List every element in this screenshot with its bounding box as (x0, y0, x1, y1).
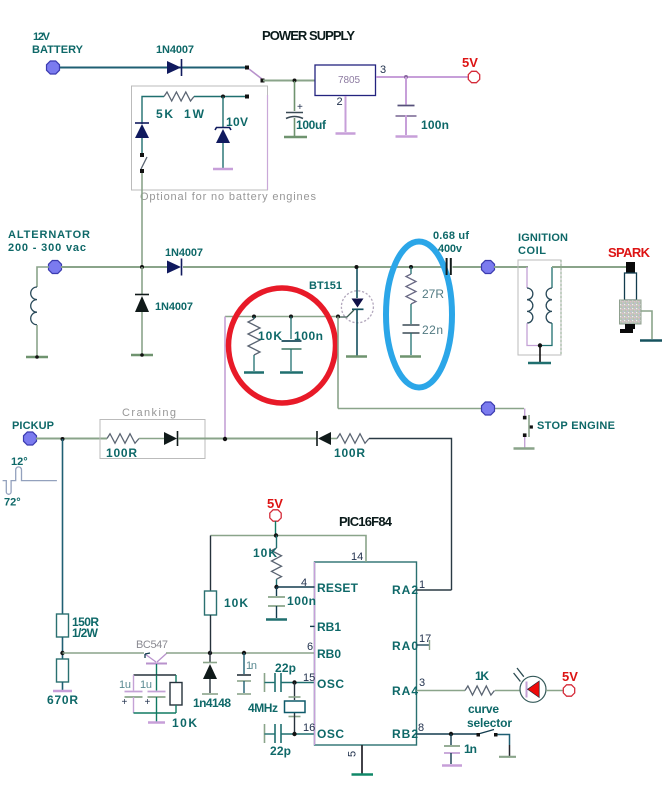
svg-text:22n: 22n (422, 323, 443, 337)
crystal X1 4MHz (294, 683, 296, 701)
svg-text:12°: 12° (11, 456, 28, 468)
wire optional to alternator line (141, 173, 143, 267)
switch SW2 optional (140, 153, 144, 157)
LED D9 (520, 676, 546, 702)
wire pickup line (36, 438, 107, 440)
box optional circuit (132, 86, 268, 190)
svg-text:SPARK: SPARK (608, 245, 651, 260)
svg-text:1n: 1n (464, 742, 477, 756)
svg-text:RB0: RB0 (317, 647, 341, 661)
wire coil output to spark plug (552, 266, 627, 268)
spark plug electrode (625, 324, 635, 329)
svg-text:27R: 27R (422, 287, 444, 301)
svg-text:ALTERNATOR: ALTERNATOR (8, 229, 90, 241)
ground alternator (26, 356, 48, 358)
capacitor 100uf (294, 81, 296, 111)
svg-text:RB1: RB1 (317, 620, 341, 634)
box cranking (100, 420, 205, 459)
terminal dot battery wire end (245, 66, 249, 70)
svg-text:1N4007: 1N4007 (165, 247, 203, 259)
node pad pickup (24, 432, 37, 445)
svg-text:200 - 300 vac: 200 - 300 vac (8, 242, 86, 254)
svg-text:100uf: 100uf (296, 118, 327, 132)
svg-text:10K: 10K (258, 329, 282, 343)
wire 5K top (142, 97, 164, 125)
ground 7805 pin2 (336, 132, 356, 134)
base network bottom wire (134, 712, 177, 714)
diode D2 optional (135, 122, 149, 124)
wire 7805 pin3 to 5V (376, 76, 468, 78)
highlight blue ellipse (386, 242, 452, 388)
pin 5 ground (361, 745, 363, 774)
wire pad into coil (494, 266, 528, 268)
box ignition coil (518, 260, 561, 355)
ground R3 (244, 371, 264, 373)
capacitor C13 1n (450, 734, 452, 745)
diode D7 reversed (316, 431, 318, 446)
svg-text:Optional for no battery engine: Optional for no battery engines (140, 191, 317, 203)
wire switch to 7805 (263, 80, 315, 82)
svg-text:400v: 400v (438, 243, 463, 255)
wire gate node (225, 316, 338, 318)
junction gate node dots (252, 315, 256, 319)
diode D1 1N4007 battery (167, 61, 181, 74)
wire 150R to junction (62, 637, 64, 659)
svg-text:14: 14 (351, 551, 363, 563)
svg-text:1N4007: 1N4007 (155, 301, 193, 313)
diode D6 cranking (164, 432, 177, 445)
svg-text:2: 2 (337, 96, 343, 108)
svg-text:selector: selector (467, 716, 512, 730)
wire coil to ground (36, 325, 38, 356)
svg-text:OSC: OSC (317, 677, 344, 691)
svg-text:5V: 5V (267, 496, 283, 511)
node pad coil input (482, 261, 495, 274)
wire plug shell to ground (641, 311, 652, 339)
spark plug terminal (626, 262, 635, 273)
wire purple gate to pickup (224, 317, 226, 440)
svg-text:+: + (122, 697, 128, 708)
primary winding (526, 267, 528, 288)
diode D4 1N4007 series (167, 261, 181, 274)
switch SW1 battery (249, 69, 262, 79)
svg-text:12V: 12V (33, 31, 51, 43)
junction coil tap (538, 343, 542, 347)
wire RB2 out (417, 733, 479, 735)
svg-text:1N4007: 1N4007 (156, 44, 194, 56)
wire 1K to LED (495, 690, 520, 692)
wire alternator pad to coil (37, 267, 49, 287)
svg-text:100n: 100n (287, 594, 316, 608)
wire RA2 out (417, 589, 452, 591)
svg-text:1u: 1u (140, 679, 152, 691)
svg-text:4MHz: 4MHz (248, 701, 278, 715)
junction pickup branch (61, 437, 65, 441)
svg-text:BATTERY: BATTERY (32, 44, 84, 56)
capacitor C12 100n reset (276, 587, 278, 596)
node pad alternator (49, 261, 62, 274)
wire resistor to diode (139, 438, 164, 440)
svg-text:10K: 10K (253, 546, 277, 560)
resistor R8 670R (57, 659, 69, 682)
svg-text:22p: 22p (275, 661, 296, 675)
resistor R10 10K pullup (276, 536, 278, 549)
svg-text:100n: 100n (421, 118, 449, 132)
svg-text:+: + (145, 697, 151, 708)
ground snubber (400, 355, 421, 357)
junction reset node (274, 585, 278, 589)
wire tap to ground (539, 346, 541, 363)
svg-text:4: 4 (301, 577, 307, 589)
svg-text:1u: 1u (119, 679, 131, 691)
wire gate node to stop switch (337, 317, 339, 409)
svg-text:10K: 10K (172, 716, 197, 730)
svg-text:5V: 5V (462, 55, 478, 70)
wire RA4 out (417, 690, 466, 692)
resistor R7 150R 1/2W (57, 614, 69, 637)
resistor R9 10K base (175, 675, 177, 683)
svg-text:RA2: RA2 (392, 583, 418, 597)
zener D3 10V (222, 97, 224, 128)
svg-text:curve: curve (468, 702, 499, 716)
svg-text:RA4: RA4 (392, 684, 418, 698)
diode D8 1n4148 (208, 651, 212, 655)
resistor R4 27R snubber (409, 265, 413, 269)
terminal dot 5K wire end (245, 95, 249, 99)
ground 670R (53, 690, 72, 692)
wire battery to switch (60, 67, 247, 69)
wire LED to 5V (546, 690, 564, 692)
svg-text:COIL: COIL (518, 245, 546, 257)
node pad stop engine (482, 402, 495, 415)
ground BT151 cathode (346, 355, 367, 357)
IC U1 PIC16F84 box (315, 562, 417, 745)
svg-text:3: 3 (380, 64, 386, 76)
base network top wire (134, 674, 177, 676)
svg-text:100R: 100R (106, 446, 137, 460)
capacitor C4 100n gate (290, 317, 292, 340)
svg-text:1W: 1W (184, 107, 205, 121)
svg-text:+: + (297, 102, 303, 113)
wire base down (156, 664, 158, 675)
secondary winding (551, 267, 553, 288)
svg-text:1: 1 (419, 579, 425, 591)
ground C13 (442, 764, 462, 766)
wire emitter (63, 652, 145, 654)
svg-text:1n: 1n (246, 660, 257, 672)
svg-text:POWER SUPPLY: POWER SUPPLY (262, 28, 355, 43)
svg-text:PICKUP: PICKUP (12, 420, 54, 432)
regulator U2 7805 (315, 65, 376, 96)
svg-text:BT151: BT151 (309, 280, 342, 292)
svg-text:1/2W: 1/2W (72, 626, 99, 640)
junction purple wire node (223, 437, 227, 441)
ground spark plug (640, 339, 662, 341)
ground 10V zener (213, 168, 233, 170)
wire collector (166, 652, 315, 654)
resistor R11 10K collector (210, 536, 212, 592)
ground C12 (266, 618, 287, 620)
svg-text:IGNITION: IGNITION (518, 232, 568, 244)
junction 10V branch (221, 95, 225, 99)
svg-text:22p: 22p (270, 744, 291, 758)
svg-text:5V: 5V (562, 669, 578, 684)
wire 7805 pin2 to ground (345, 96, 347, 132)
node 5V power supply (468, 71, 479, 82)
resistor R12 1K (465, 686, 495, 695)
svg-text:1K: 1K (475, 669, 489, 683)
junction optional/diode node (140, 265, 144, 269)
ground stop switch (514, 447, 535, 449)
resistor R6 100R (331, 438, 337, 440)
capacitor C9 1n (242, 651, 246, 655)
svg-text:BC547: BC547 (136, 639, 168, 651)
svg-text:16: 16 (303, 722, 315, 734)
junction 100uf node (293, 79, 297, 83)
svg-text:15: 15 (303, 672, 315, 684)
svg-text:6: 6 (307, 641, 313, 653)
svg-text:7805: 7805 (338, 75, 360, 86)
svg-text:PIC16F84: PIC16F84 (339, 514, 393, 529)
svg-text:8: 8 (418, 722, 424, 734)
highlight red ellipse (229, 288, 336, 403)
wire diode to cap (183, 266, 446, 268)
svg-text:10V: 10V (226, 115, 248, 129)
svg-text:100n: 100n (294, 329, 323, 343)
diode D5 1N4007 shunt (141, 267, 143, 294)
svg-text:670R: 670R (47, 693, 78, 707)
svg-text:72°: 72° (4, 497, 21, 509)
resistor R5 100R cranking (107, 434, 139, 444)
spark plug insulator (625, 273, 637, 300)
resistor R2 5K 1W (164, 92, 194, 101)
capacitor C2 100n (405, 77, 407, 105)
node 5V pic (270, 510, 281, 521)
capacitor C5 22n snubber (403, 324, 420, 326)
wire 5V to rail (275, 521, 277, 536)
spark plug hex body (620, 300, 642, 324)
svg-text:RA0: RA0 (392, 639, 418, 653)
junction 100n node (404, 75, 408, 79)
wire pickup down (62, 439, 64, 614)
junction emitter node (60, 651, 64, 655)
wire cap to coil pad (453, 266, 483, 268)
gate wire BT151 (339, 310, 355, 317)
resistor R3 10K gate (253, 317, 255, 320)
ground C4 (280, 371, 303, 373)
switch SW3 stop engine pushbutton (524, 409, 526, 417)
junction 1n node (449, 732, 453, 736)
svg-text:5K: 5K (156, 107, 173, 121)
pin 14 wire (211, 536, 367, 563)
wire reset (277, 586, 315, 588)
svg-text:5: 5 (347, 751, 359, 757)
ground SW4 (499, 756, 516, 758)
svg-text:STOP ENGINE: STOP ENGINE (537, 420, 615, 432)
wire 100R to RA2 (369, 439, 452, 591)
switch SW4 curve selector (477, 733, 481, 737)
ground ignition coil (528, 362, 551, 364)
svg-text:1n4148: 1n4148 (193, 696, 231, 710)
svg-text:100R: 100R (334, 446, 365, 460)
wire diode to junction (178, 438, 317, 440)
svg-text:0.68 uf: 0.68 uf (433, 230, 469, 242)
capacitor C11 22p (264, 724, 266, 743)
inductor L1 alternator winding (31, 287, 37, 325)
ground base network (148, 721, 165, 723)
svg-text:10K: 10K (224, 596, 248, 610)
stub RA0 (417, 644, 430, 646)
svg-text:RESET: RESET (317, 581, 359, 595)
ground D5 (131, 354, 153, 356)
svg-text:OSC: OSC (317, 727, 344, 741)
svg-text:3: 3 (419, 677, 425, 689)
node pad 12V battery (47, 61, 60, 74)
svg-text:RB2: RB2 (392, 727, 418, 741)
wire alternator main (61, 266, 167, 268)
node 5V LED (563, 685, 574, 696)
